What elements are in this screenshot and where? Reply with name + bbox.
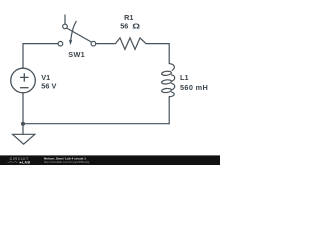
- svg-text:L1: L1: [180, 73, 189, 82]
- wire V1 bottom: [22, 93, 24, 124]
- wire ground stub: [22, 124, 24, 135]
- svg-text:56: 56: [120, 21, 128, 30]
- switch SW1: [58, 15, 96, 47]
- switch arrowhead: [69, 40, 72, 46]
- svg-text:▸LAB: ▸LAB: [19, 161, 31, 165]
- ground: [13, 134, 35, 144]
- wire resistor to corner and down to inductor: [146, 44, 169, 64]
- switch actuator arrow: [71, 21, 77, 41]
- resistor R1: [115, 38, 145, 50]
- inductor L1: [161, 64, 174, 97]
- svg-text:56 V: 56 V: [41, 82, 56, 91]
- svg-text:Ω: Ω: [132, 21, 140, 30]
- switch right terminal: [91, 41, 96, 46]
- wire switch to resistor: [96, 43, 116, 45]
- switch blade: [67, 28, 92, 42]
- svg-text:560 mH: 560 mH: [180, 83, 208, 92]
- wire top-left horizontal: [23, 43, 58, 45]
- junction node: [21, 122, 25, 126]
- wire inductor bottom to corner: [168, 97, 170, 124]
- voltage source V1: [11, 68, 36, 93]
- svg-text:V1: V1: [41, 73, 50, 82]
- switch top terminal: [63, 24, 68, 29]
- svg-text:http://circuitlab.com/c/7ynpc5: http://circuitlab.com/c/7ynpc556ed4j/: [44, 160, 89, 164]
- switch left terminal: [58, 41, 63, 46]
- wire bottom rail: [23, 123, 169, 125]
- wire top-left vertical: [22, 44, 24, 68]
- footer logo LAB: [8, 161, 18, 162]
- footer bar: [0, 155, 220, 165]
- switch top stub wire: [64, 15, 66, 25]
- svg-text:SW1: SW1: [68, 50, 85, 59]
